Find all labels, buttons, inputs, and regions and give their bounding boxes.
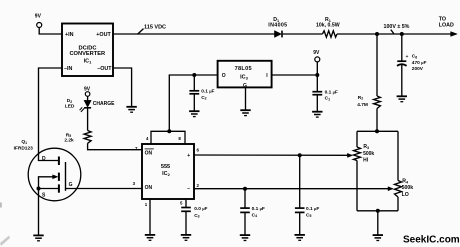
wire pot box bottom bbox=[357, 210, 398, 212]
svg-text:2.2k: 2.2k bbox=[64, 138, 74, 144]
wire 78L05 output to 555 pins 4+8 bbox=[169, 75, 217, 131]
ground (C6) bbox=[397, 96, 407, 101]
wire -IN to Q1 drain bbox=[39, 68, 63, 155]
ground (Q1 source) bbox=[33, 235, 43, 240]
junction dot pot box bottom bbox=[376, 209, 380, 213]
wire R5 to 555 pin 7 bbox=[88, 143, 142, 149]
capacitor C5 0.1uF bbox=[295, 155, 319, 234]
wire +OUT top rail to D1 bbox=[113, 33, 275, 35]
svg-text:500k: 500k bbox=[402, 185, 414, 191]
node TO LOAD output arrow bbox=[439, 17, 457, 37]
svg-text:78L05: 78L05 bbox=[235, 66, 252, 72]
svg-text:D: D bbox=[42, 156, 46, 162]
ground (78L05 G) bbox=[240, 110, 250, 115]
svg-text:+IN: +IN bbox=[65, 32, 74, 38]
ground (C5) bbox=[295, 235, 305, 240]
svg-text:+: + bbox=[406, 54, 409, 59]
svg-text:555: 555 bbox=[161, 164, 170, 170]
pin numbers 4 8 7 6 3 2 1 5 bbox=[133, 136, 200, 207]
wire LED to R5 bbox=[87, 108, 89, 130]
wire 78L05 input to 9V bbox=[272, 74, 318, 76]
svg-text:500k: 500k bbox=[363, 151, 374, 157]
svg-text:0.1 µF: 0.1 µF bbox=[306, 206, 319, 212]
svg-text:4.7M: 4.7M bbox=[357, 102, 368, 108]
svg-text:LED: LED bbox=[65, 103, 75, 109]
svg-text:IN4005: IN4005 bbox=[268, 22, 287, 28]
node 100V +-5% label bbox=[384, 24, 410, 34]
potentiometer R4 500k LO bbox=[395, 131, 414, 211]
svg-text:CHARGE: CHARGE bbox=[93, 101, 115, 107]
svg-text:IC1: IC1 bbox=[84, 59, 92, 65]
ground (C2) bbox=[189, 111, 199, 116]
svg-text:0.1 µF: 0.1 µF bbox=[325, 89, 338, 95]
wire pot box to ground bbox=[377, 211, 379, 235]
wire Q1 source to ground bbox=[38, 189, 40, 235]
node 9V battery terminal (top left) bbox=[35, 13, 42, 27]
svg-text:115 VDC: 115 VDC bbox=[144, 25, 166, 31]
svg-text:100V ± 5%: 100V ± 5% bbox=[384, 24, 410, 30]
capacitor C6 470uF 200V bbox=[397, 34, 426, 96]
labels ON(bar) ON 555 IC2 + - bbox=[145, 151, 191, 192]
svg-text:LOAD: LOAD bbox=[439, 22, 454, 28]
junction dot 9V / C1 bbox=[315, 73, 319, 77]
transistor Q1 IFRD123 bbox=[14, 139, 81, 201]
svg-text:HI: HI bbox=[363, 158, 369, 164]
scan smudge left edge bbox=[0, 203, 2, 208]
node 115 VDC label bbox=[138, 25, 167, 35]
scan smudge bottom-left bbox=[0, 236, 10, 247]
svg-text:9V: 9V bbox=[313, 50, 320, 56]
svg-text:ON: ON bbox=[145, 185, 153, 191]
capacitor C1 0.1uF bbox=[312, 75, 338, 111]
capacitor C4 0.1uF bbox=[240, 189, 265, 235]
wire -OUT to ground bbox=[113, 68, 132, 106]
op-amp IC2 555 timer box bbox=[133, 131, 200, 207]
ground (pot box) bbox=[373, 235, 383, 240]
ground (C3) bbox=[181, 235, 191, 240]
capacitor C2 0.1uF bbox=[189, 75, 214, 111]
svg-text:ON: ON bbox=[145, 151, 153, 157]
svg-text:−: − bbox=[187, 186, 190, 192]
svg-text:–IN: –IN bbox=[64, 66, 72, 72]
junction dot pot box top bbox=[375, 129, 379, 133]
ground (DC/DC -OUT) bbox=[126, 107, 136, 112]
wire 555 pin 6 to R3 wiper bbox=[194, 154, 350, 156]
svg-text:CONVERTER: CONVERTER bbox=[69, 51, 105, 57]
junction dot 555 Vcc bbox=[167, 129, 171, 133]
wire 78L05 G to ground bbox=[245, 87, 247, 109]
svg-text:470 µF: 470 µF bbox=[412, 60, 427, 66]
svg-text:+: + bbox=[187, 153, 190, 159]
node 9V battery terminal (right) bbox=[313, 50, 320, 75]
junction dot top rail / C6 bbox=[400, 32, 404, 36]
resistor R5 2.2k bbox=[64, 131, 91, 144]
svg-text:0.1 µF: 0.1 µF bbox=[252, 206, 265, 212]
ground (C4) bbox=[240, 235, 250, 240]
wire D1 to R1 bbox=[283, 33, 323, 35]
svg-text:9V: 9V bbox=[35, 13, 42, 19]
wire R1 to load arrow bbox=[337, 33, 455, 35]
svg-text:IC3: IC3 bbox=[240, 74, 248, 80]
junction dot C5 tap bbox=[298, 153, 302, 157]
resistor R2 4.7M bbox=[357, 34, 380, 131]
svg-text:O: O bbox=[222, 73, 226, 79]
potentiometer R3 500k HI bbox=[354, 131, 375, 211]
voltage regulator IC3 78L05 box bbox=[218, 61, 272, 89]
svg-text:0.1 µF: 0.1 µF bbox=[201, 89, 214, 95]
wire Q1 gate to 555 pin 3 bbox=[66, 188, 143, 190]
svg-text:200V: 200V bbox=[412, 66, 424, 72]
node 9V battery terminal (charge LED) bbox=[84, 87, 91, 101]
svg-text:0.0 µF: 0.0 µF bbox=[194, 206, 207, 212]
junction dot C2 tap bbox=[192, 73, 196, 77]
svg-text:IC2: IC2 bbox=[162, 171, 170, 177]
ground (555 pin 1) bbox=[145, 235, 155, 240]
svg-text:10k, 0.5W: 10k, 0.5W bbox=[316, 22, 340, 28]
svg-text:LO: LO bbox=[402, 192, 409, 198]
capacitor C3 0.0uF (555 pin 5) bbox=[181, 199, 207, 234]
wire 9V terminal to +IN bbox=[39, 28, 62, 35]
svg-text:+OUT: +OUT bbox=[96, 32, 111, 38]
junction dot C4 tap bbox=[243, 187, 247, 191]
ground (C1) bbox=[312, 112, 322, 117]
svg-text:IFRD123: IFRD123 bbox=[14, 145, 34, 151]
op-amp IC1 DC/DC converter box bbox=[62, 24, 113, 77]
wire pot box top bbox=[357, 130, 398, 132]
svg-text:G: G bbox=[69, 182, 73, 188]
wire 555 pin 1 to ground bbox=[149, 199, 151, 234]
diode D1 IN4005 bbox=[268, 17, 287, 37]
LED D2 CHARGE bbox=[65, 98, 115, 112]
pin labels +IN +OUT -IN -OUT bbox=[64, 32, 112, 72]
wire 555 pin 2 to R4 wiper bbox=[194, 188, 390, 190]
svg-text:–OUT: –OUT bbox=[97, 66, 112, 72]
resistor R1 10k 0.5W bbox=[316, 17, 340, 37]
junction dot top rail / R2 bbox=[375, 32, 379, 36]
svg-text:SeekIC.com: SeekIC.com bbox=[403, 234, 460, 245]
